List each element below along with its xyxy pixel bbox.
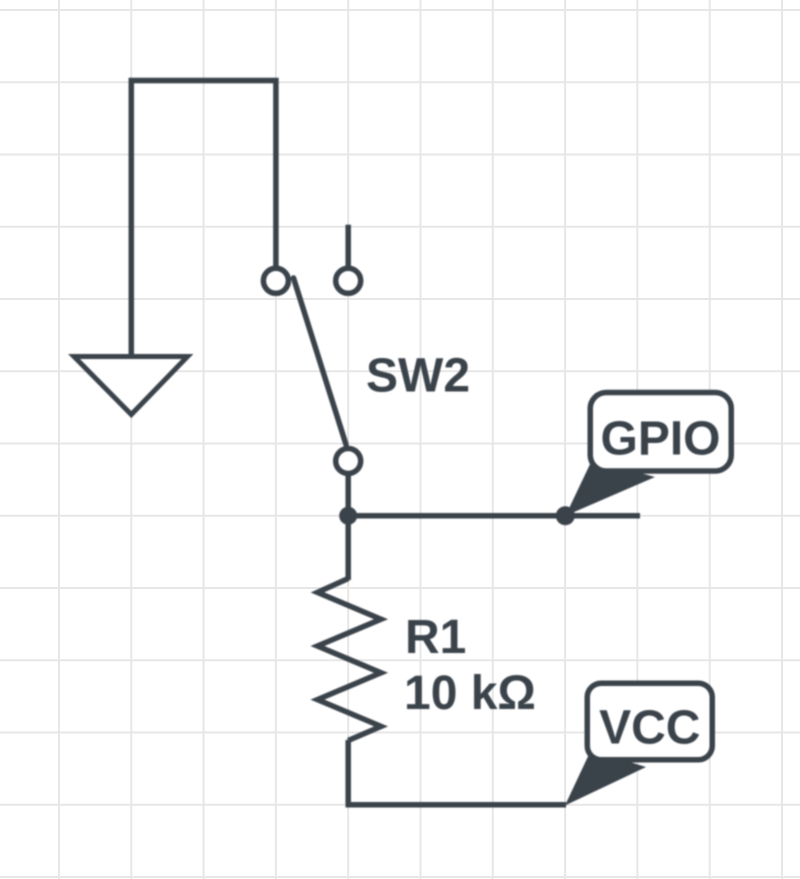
wire bottom to VCC — [346, 802, 567, 808]
wire junction to GPIO — [348, 513, 640, 519]
svg-text:SW2: SW2 — [366, 350, 470, 403]
wire junction to resistor — [345, 516, 351, 580]
switch SW2 lever — [294, 278, 347, 445]
GPIO flag box — [590, 393, 731, 472]
wire ground branch: GND up and over to switch throw 1 — [131, 81, 276, 357]
switch SW2 throw contact 2 — [336, 268, 361, 293]
node dot GPIO — [556, 506, 575, 525]
VCC flag box — [587, 683, 712, 760]
junction dot — [339, 507, 357, 525]
svg-text:VCC: VCC — [599, 702, 700, 755]
GPIO flag tail — [566, 460, 656, 516]
switch SW2 throw contact 1 — [263, 268, 288, 293]
svg-text:GPIO: GPIO — [600, 413, 720, 466]
switch SW2 pole contact — [336, 449, 361, 474]
wire pole to junction — [345, 475, 351, 516]
svg-text:10 kΩ: 10 kΩ — [404, 667, 536, 720]
VCC flag tail — [565, 750, 646, 806]
ground — [74, 357, 188, 415]
wire resistor to bottom — [345, 740, 351, 805]
wire stub above throw contact 2 — [345, 225, 351, 267]
svg-text:R1: R1 — [405, 611, 466, 664]
resistor R1 zigzag — [318, 579, 382, 741]
